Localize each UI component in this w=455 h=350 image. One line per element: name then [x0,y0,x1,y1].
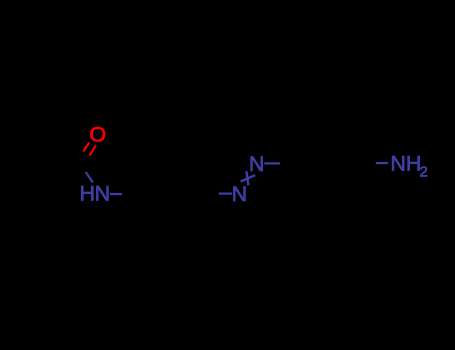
svg-text:N: N [249,152,265,176]
svg-text:NH2: NH2 [390,152,427,181]
svg-text:HN: HN [79,182,109,206]
svg-text:N: N [232,182,248,206]
svg-text:O: O [89,122,106,146]
